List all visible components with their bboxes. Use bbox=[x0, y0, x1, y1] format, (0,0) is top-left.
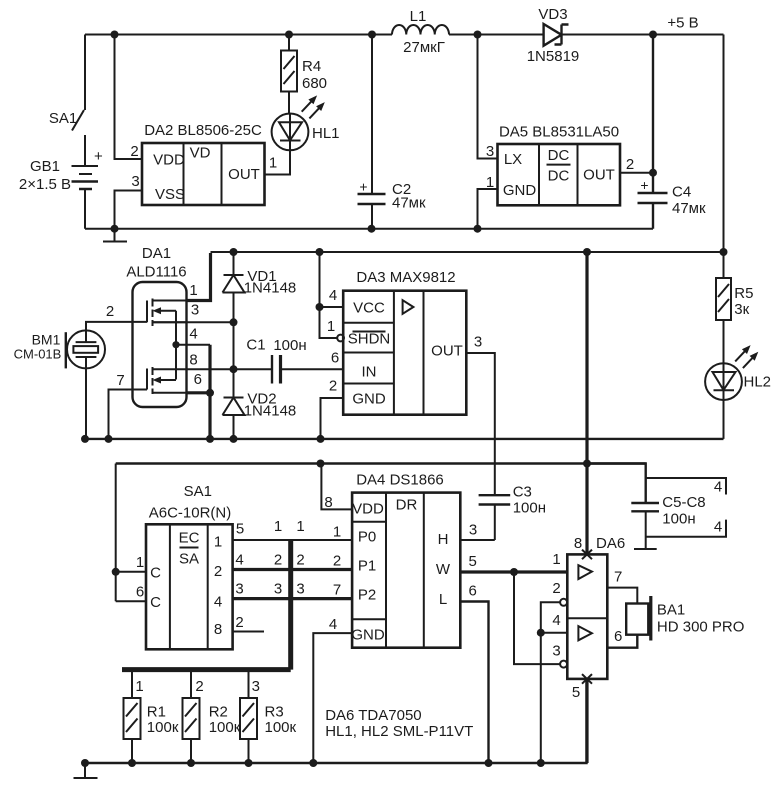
resistor R1 100k bbox=[124, 670, 179, 763]
svg-text:R4: R4 bbox=[302, 58, 321, 75]
svg-text:3: 3 bbox=[235, 581, 243, 598]
svg-text:3: 3 bbox=[252, 678, 260, 695]
svg-text:6: 6 bbox=[136, 584, 144, 601]
pin 3 DA6 wire with bubble bbox=[560, 661, 567, 668]
switch SA1 bbox=[49, 35, 85, 131]
svg-text:2: 2 bbox=[274, 552, 282, 569]
svg-text:BA1: BA1 bbox=[657, 602, 685, 619]
junction top rail at R4 bbox=[285, 31, 293, 39]
svg-text:2: 2 bbox=[626, 156, 634, 173]
svg-text:6: 6 bbox=[194, 371, 202, 388]
svg-text:P2: P2 bbox=[358, 587, 376, 604]
svg-text:VDD: VDD bbox=[352, 501, 384, 518]
wire SA1 common feed bbox=[116, 464, 146, 602]
svg-text:DA6: DA6 bbox=[596, 535, 625, 552]
svg-text:P1: P1 bbox=[358, 558, 376, 575]
diode VD3 1N5819 schottky bbox=[527, 6, 580, 65]
svg-text:VD: VD bbox=[190, 145, 211, 162]
svg-text:VD3: VD3 bbox=[538, 6, 567, 23]
resistor R2 100k bbox=[183, 670, 241, 763]
svg-text:5: 5 bbox=[236, 521, 244, 538]
svg-text:IN: IN bbox=[362, 364, 377, 381]
svg-text:100к: 100к bbox=[265, 719, 297, 736]
pin 3 DA5 LX wire bbox=[478, 35, 498, 159]
svg-text:A6C-10R(N): A6C-10R(N) bbox=[149, 505, 232, 522]
pin 2 DA2 VDD wire bbox=[115, 35, 143, 160]
svg-text:8: 8 bbox=[214, 621, 222, 638]
svg-text:C: C bbox=[150, 594, 161, 611]
svg-text:4: 4 bbox=[189, 326, 197, 343]
diode VD1 1N4148 bbox=[223, 252, 297, 322]
pin 1 DA1 wire to +5V bbox=[187, 253, 211, 301]
pin 3 DA2 VSS wire bbox=[115, 191, 143, 229]
svg-text:2: 2 bbox=[329, 378, 337, 395]
pin 1 DA5 GND wire bbox=[478, 189, 498, 229]
svg-text:1: 1 bbox=[296, 518, 304, 535]
svg-text:3: 3 bbox=[552, 643, 560, 660]
svg-text:8: 8 bbox=[324, 494, 332, 511]
svg-text:4: 4 bbox=[714, 479, 722, 496]
wire HL2 cathode to mid ground rail bbox=[723, 400, 725, 439]
svg-text:3: 3 bbox=[191, 302, 199, 319]
svg-text:C1: C1 bbox=[246, 337, 265, 354]
svg-text:W: W bbox=[436, 561, 451, 578]
svg-text:6: 6 bbox=[469, 583, 477, 600]
svg-text:DA3 MAX9812: DA3 MAX9812 bbox=[356, 269, 455, 286]
IC DA5 BL8531LA50 bbox=[498, 124, 621, 206]
wire mid ground rail bbox=[85, 438, 724, 440]
IC DA2 BL8506-25C bbox=[142, 122, 265, 205]
svg-text:1: 1 bbox=[486, 174, 494, 191]
svg-text:3: 3 bbox=[274, 581, 282, 598]
junction top rail at C2 bbox=[368, 31, 376, 39]
junction pin8 / C1 bbox=[230, 365, 238, 373]
svg-text:1: 1 bbox=[327, 318, 335, 335]
svg-text:3: 3 bbox=[131, 173, 139, 190]
svg-text:VDD: VDD bbox=[153, 152, 185, 169]
svg-text:HL2: HL2 bbox=[744, 374, 772, 391]
LED HL1 bbox=[272, 95, 340, 150]
wire SA1 pin8 stub bbox=[233, 631, 264, 633]
svg-text:2: 2 bbox=[106, 303, 114, 320]
wire +5V distribution rail (mid) bbox=[211, 251, 724, 253]
svg-text:HL1, HL2 SML-P11VT: HL1, HL2 SML-P11VT bbox=[325, 723, 473, 740]
svg-text:4: 4 bbox=[235, 552, 243, 569]
svg-text:1: 1 bbox=[333, 524, 341, 541]
svg-text:7: 7 bbox=[333, 582, 341, 599]
pin 8 DA6 power cross bbox=[582, 550, 592, 560]
wire switched +5V rail (below mid ground) bbox=[116, 462, 646, 464]
junction pin3 / VD1 anode bbox=[230, 318, 238, 326]
svg-text:L1: L1 bbox=[410, 8, 427, 25]
capacitor C1 100n bbox=[234, 337, 344, 384]
svg-text:7: 7 bbox=[614, 569, 622, 586]
svg-text:2: 2 bbox=[235, 614, 243, 631]
pin 5 DA4 W wire bbox=[460, 570, 567, 573]
svg-text:+: + bbox=[359, 179, 367, 195]
junction top rail at DA5 LX bbox=[474, 31, 482, 39]
svg-text:R3: R3 bbox=[265, 704, 284, 721]
svg-text:R5: R5 bbox=[734, 285, 753, 302]
svg-text:8: 8 bbox=[574, 535, 582, 552]
pin 5 DA6 power cross bbox=[582, 674, 592, 684]
svg-text:GND: GND bbox=[503, 182, 537, 199]
resistor R5 3k bbox=[716, 252, 753, 363]
pin 6 DA6 wire bbox=[607, 635, 637, 648]
svg-text:5: 5 bbox=[572, 684, 580, 701]
pin 2 DA3 GND wire bbox=[321, 398, 344, 439]
wire DA6 pin5 to ground rail bbox=[585, 679, 588, 763]
wire pins 3-8 link bbox=[233, 322, 235, 369]
svg-text:3: 3 bbox=[474, 334, 482, 351]
wire bottom ground rail bbox=[85, 679, 587, 763]
svg-text:6: 6 bbox=[614, 628, 622, 645]
IC DA4 DS1866 bbox=[351, 472, 460, 648]
svg-text:GND: GND bbox=[352, 391, 386, 408]
pin 2 DA1 gate wire from BM1 bbox=[86, 322, 147, 342]
transistor VT2 lower MOSFET of DA1 bbox=[147, 367, 234, 394]
svg-text:1N4148: 1N4148 bbox=[244, 280, 297, 297]
svg-text:C3: C3 bbox=[513, 484, 532, 501]
svg-text:6: 6 bbox=[331, 350, 339, 367]
svg-text:5: 5 bbox=[469, 553, 477, 570]
wire +5V to DA6 pin 8 (thick vertical) bbox=[585, 252, 588, 554]
resistor R3 100k bbox=[240, 670, 297, 763]
pin 1 DA3 SHDN wire with inversion bubble bbox=[320, 307, 338, 338]
svg-text:1: 1 bbox=[135, 678, 143, 695]
svg-text:4: 4 bbox=[329, 287, 337, 304]
svg-text:P0: P0 bbox=[358, 529, 376, 546]
svg-text:7: 7 bbox=[116, 372, 124, 389]
svg-text:SA1: SA1 bbox=[184, 483, 212, 500]
pin 1 DA2 OUT wire bbox=[265, 151, 291, 175]
svg-text:HD 300 PRO: HD 300 PRO bbox=[657, 619, 745, 636]
svg-text:2: 2 bbox=[195, 678, 203, 695]
svg-text:C: C bbox=[150, 565, 161, 582]
svg-text:1: 1 bbox=[189, 282, 197, 299]
ground symbol below GB1 bbox=[103, 229, 127, 242]
capacitor C3 100n bbox=[479, 484, 546, 541]
wire SA1 out row2 to DA4 P1 bbox=[233, 568, 353, 571]
svg-text:GND: GND bbox=[351, 627, 385, 644]
svg-text:47мк: 47мк bbox=[392, 195, 426, 212]
junction top rail at VD3 cathode bbox=[649, 31, 657, 39]
diode VD2 1N4148 bbox=[223, 369, 297, 439]
microphone BM1 CM-01B bbox=[14, 330, 105, 439]
wire SA1 out row1 to DA4 P0 bbox=[233, 539, 353, 541]
capacitor C2 47uk polarized bbox=[358, 35, 426, 229]
speaker BA1 HD 300 PRO bbox=[626, 596, 744, 641]
svg-text:L: L bbox=[439, 591, 447, 608]
svg-text:2: 2 bbox=[214, 563, 222, 580]
capacitor C5-C8 100n block bbox=[631, 478, 726, 549]
wire DA1 pins 4,6 to ground (thick) bbox=[208, 345, 211, 439]
svg-text:4: 4 bbox=[329, 616, 337, 633]
wire DA6 pins 2,4 to ground bbox=[540, 633, 542, 763]
ground symbol bottom left bbox=[74, 763, 98, 778]
svg-text:DA5 BL8531LA50: DA5 BL8531LA50 bbox=[499, 124, 619, 141]
svg-text:GB1: GB1 bbox=[30, 158, 60, 175]
svg-text:R1: R1 bbox=[147, 704, 166, 721]
svg-text:C5-C8: C5-C8 bbox=[662, 494, 705, 511]
svg-text:4: 4 bbox=[714, 519, 722, 536]
svg-text:100н: 100н bbox=[273, 337, 306, 354]
svg-text:SA1: SA1 bbox=[49, 110, 77, 127]
svg-text:4: 4 bbox=[552, 612, 560, 629]
svg-text:100к: 100к bbox=[209, 719, 241, 736]
svg-text:OUT: OUT bbox=[228, 166, 260, 183]
svg-text:H: H bbox=[438, 531, 449, 548]
pin 8 DA4 VDD wire bbox=[321, 464, 352, 510]
wire top +battery rail bbox=[85, 34, 724, 36]
svg-text:3к: 3к bbox=[734, 301, 749, 318]
IC DA3 MAX9812 bbox=[343, 269, 466, 415]
svg-text:SA: SA bbox=[179, 551, 199, 568]
svg-text:2: 2 bbox=[296, 552, 304, 569]
svg-text:100н: 100н bbox=[662, 511, 695, 528]
svg-text:HL1: HL1 bbox=[312, 125, 340, 142]
transistor VT1 upper MOSFET of DA1 bbox=[147, 299, 187, 327]
svg-text:8: 8 bbox=[189, 352, 197, 369]
svg-text:2: 2 bbox=[130, 143, 138, 160]
svg-text:2: 2 bbox=[333, 553, 341, 570]
svg-text:DC: DC bbox=[548, 168, 570, 185]
svg-text:DC: DC bbox=[548, 147, 570, 164]
svg-text:LX: LX bbox=[504, 151, 522, 168]
svg-text:EC: EC bbox=[179, 530, 200, 547]
svg-text:+: + bbox=[94, 148, 103, 165]
svg-text:1: 1 bbox=[136, 554, 144, 571]
svg-text:BM1: BM1 bbox=[32, 332, 61, 348]
pin 6 DA1 wire bbox=[153, 392, 187, 394]
svg-text:1: 1 bbox=[269, 155, 277, 172]
switch SA1 A6C-10R(N) bbox=[146, 483, 233, 649]
capacitor C4 47uk polarized bbox=[638, 35, 706, 229]
svg-text:DA1: DA1 bbox=[142, 245, 171, 262]
LED HL2 bbox=[705, 345, 771, 400]
svg-text:1: 1 bbox=[274, 518, 282, 535]
svg-text:1: 1 bbox=[214, 534, 222, 551]
pin 3 DA3 OUT wire bbox=[466, 353, 495, 495]
svg-text:OUT: OUT bbox=[431, 343, 463, 360]
pin 2 DA6 wire with bubble bbox=[560, 599, 567, 606]
svg-text:3: 3 bbox=[469, 522, 477, 539]
svg-text:SHDN: SHDN bbox=[348, 331, 391, 348]
svg-text:+: + bbox=[640, 177, 648, 193]
pin 7 DA1 gate wire bbox=[109, 390, 148, 439]
IC DA6 TDA7050 amplifier bbox=[567, 535, 625, 679]
pin 4 DA3 VCC wire bbox=[320, 252, 344, 307]
svg-text:1: 1 bbox=[552, 551, 560, 568]
svg-text:100к: 100к bbox=[147, 719, 179, 736]
svg-text:CM-01B: CM-01B bbox=[14, 347, 62, 362]
IC DA1 ALD1116 package bbox=[126, 245, 186, 407]
pin 6 DA4 L wire bbox=[460, 602, 488, 764]
svg-text:1N4148: 1N4148 bbox=[244, 403, 297, 420]
pin 4 DA4 GND wire bbox=[313, 633, 352, 763]
svg-text:3: 3 bbox=[296, 581, 304, 598]
svg-text:680: 680 bbox=[302, 75, 327, 92]
svg-text:ALD1116: ALD1116 bbox=[126, 264, 186, 281]
svg-text:4: 4 bbox=[214, 594, 222, 611]
svg-text:2×1.5 В: 2×1.5 В bbox=[19, 176, 71, 193]
svg-text:C4: C4 bbox=[672, 184, 691, 201]
pin 4 DA1 wire bbox=[176, 344, 210, 346]
junction top rail at x=114.5 bbox=[111, 31, 119, 39]
svg-text:100н: 100н bbox=[513, 500, 546, 517]
svg-text:VSS: VSS bbox=[155, 186, 185, 203]
wire switched rail to C5-C8 bbox=[587, 464, 646, 504]
svg-text:OUT: OUT bbox=[583, 167, 615, 184]
svg-text:1N5819: 1N5819 bbox=[527, 48, 580, 65]
wire +5V right edge vertical bbox=[723, 35, 725, 253]
battery GB1 2x1.5 V bbox=[19, 135, 103, 229]
pin 7 DA6 wire bbox=[607, 588, 637, 604]
svg-text:R2: R2 bbox=[209, 704, 228, 721]
resistor R4 680 bbox=[281, 35, 327, 114]
svg-text:2: 2 bbox=[552, 580, 560, 597]
svg-text:DR: DR bbox=[396, 497, 418, 514]
svg-text:3: 3 bbox=[486, 143, 494, 160]
svg-text:DA2 BL8506-25C: DA2 BL8506-25C bbox=[144, 122, 262, 139]
pin 3 DA1 wire bbox=[153, 321, 234, 323]
svg-text:VCC: VCC bbox=[353, 300, 385, 317]
bus group wire (thick) bbox=[122, 540, 291, 670]
pin 3 DA4 H wire bbox=[460, 539, 495, 541]
pin 4 DA6 wire bbox=[541, 632, 568, 634]
pin 2 DA5 OUT wire bbox=[620, 172, 653, 174]
svg-text:27мкГ: 27мкГ bbox=[403, 39, 445, 56]
wire SA1 out row3 to DA4 P2 bbox=[233, 597, 353, 600]
wire substrate to pin 4 node bbox=[175, 311, 177, 380]
svg-text:DA4 DS1866: DA4 DS1866 bbox=[356, 472, 444, 489]
inductor L1 27uH bbox=[392, 8, 449, 56]
wire ground rail of top section bbox=[85, 228, 653, 230]
svg-text:+5 В: +5 В bbox=[667, 15, 698, 32]
svg-text:DA6 TDA7050: DA6 TDA7050 bbox=[325, 707, 421, 724]
svg-text:47мк: 47мк bbox=[672, 200, 706, 217]
